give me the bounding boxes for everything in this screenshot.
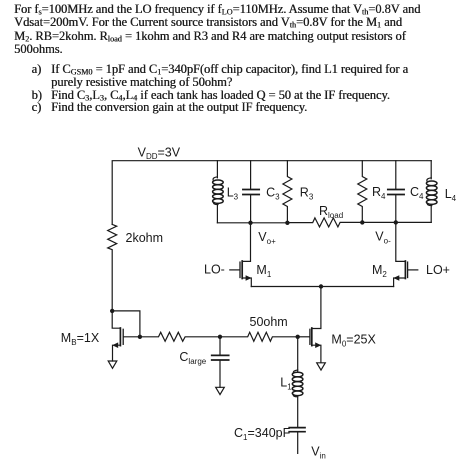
svg-text:Vo+: Vo+	[258, 230, 276, 246]
svg-text:LO-: LO-	[204, 263, 225, 277]
svg-text:M2: M2	[372, 263, 387, 279]
svg-text:L1: L1	[280, 376, 292, 392]
svg-text:Vo-: Vo-	[375, 230, 391, 246]
svg-text:Rload: Rload	[319, 204, 343, 220]
svg-text:C1=340pF: C1=340pF	[234, 426, 291, 442]
svg-text:M0=25X: M0=25X	[331, 333, 376, 349]
svg-text:C4: C4	[410, 185, 424, 201]
svg-text:Clarge: Clarge	[179, 350, 206, 366]
svg-text:2kohm: 2kohm	[126, 231, 164, 245]
svg-text:VDD=3V: VDD=3V	[138, 146, 181, 162]
svg-text:L3: L3	[227, 186, 239, 202]
svg-text:R3: R3	[300, 186, 314, 202]
svg-text:R4: R4	[372, 185, 386, 201]
svg-text:50ohm: 50ohm	[250, 315, 288, 329]
svg-text:M1: M1	[256, 263, 271, 279]
svg-text:MB=1X: MB=1X	[61, 331, 100, 347]
svg-text:Vin: Vin	[311, 445, 326, 461]
svg-text:C3: C3	[266, 186, 280, 202]
svg-text:L4: L4	[445, 187, 457, 203]
svg-text:LO+: LO+	[426, 263, 450, 277]
